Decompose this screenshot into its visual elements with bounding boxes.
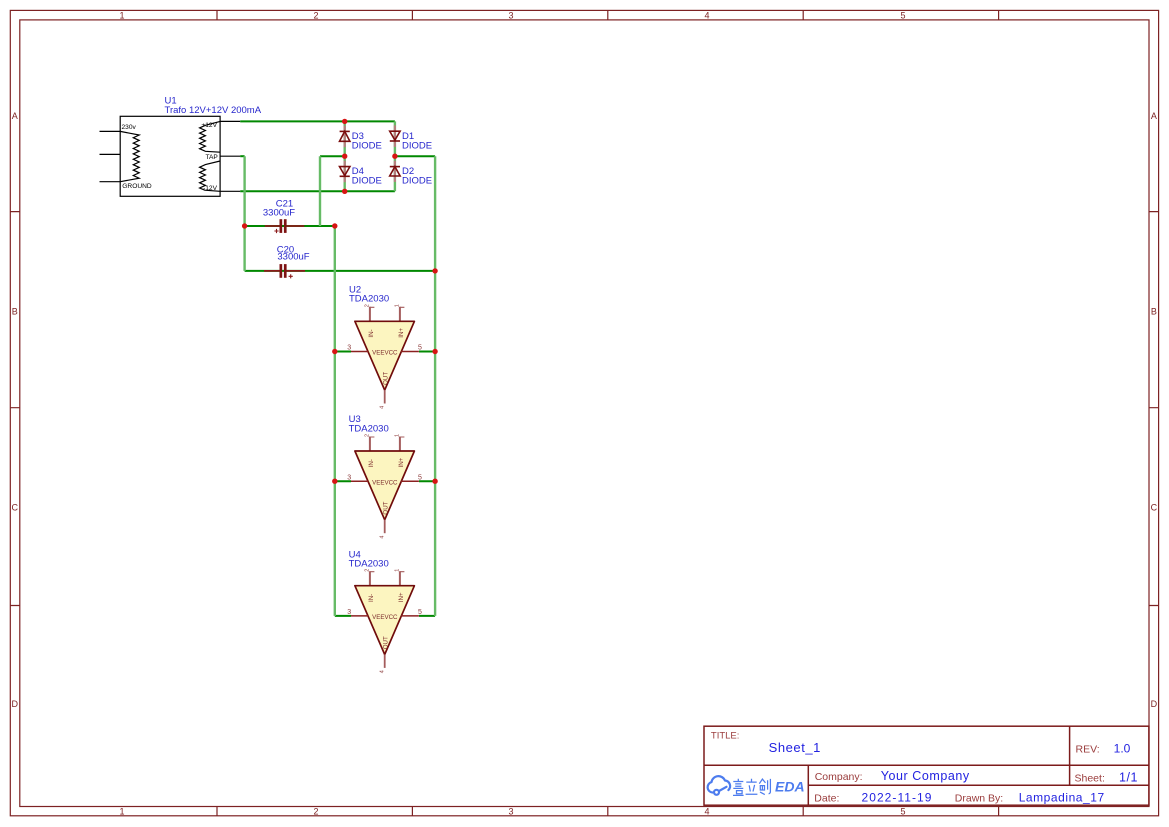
svg-text:TDA2030: TDA2030 [349, 423, 389, 434]
svg-text:4: 4 [380, 536, 386, 539]
svg-text:B: B [1151, 307, 1157, 317]
svg-text:4: 4 [704, 807, 709, 817]
svg-text:DIODE: DIODE [352, 141, 382, 152]
svg-text:+12V: +12V [201, 122, 217, 129]
svg-text:GROUND: GROUND [122, 183, 152, 190]
svg-text:DIODE: DIODE [402, 141, 432, 152]
svg-text:IN-: IN- [368, 459, 375, 467]
svg-text:-12V: -12V [203, 185, 218, 192]
svg-text:OUT: OUT [383, 636, 390, 649]
svg-text:OUT: OUT [383, 372, 390, 385]
svg-text:EDA: EDA [775, 779, 805, 795]
svg-text:5: 5 [418, 609, 422, 616]
svg-text:Lampadina_17: Lampadina_17 [1019, 791, 1105, 805]
svg-text:TAP: TAP [205, 154, 218, 161]
svg-text:IN-: IN- [368, 329, 375, 337]
svg-text:Sheet_1: Sheet_1 [769, 740, 821, 755]
svg-text:C: C [12, 502, 19, 512]
svg-text:Date:: Date: [814, 793, 839, 805]
svg-text:3: 3 [508, 807, 513, 817]
svg-text:Sheet:: Sheet: [1075, 772, 1105, 784]
svg-text:5: 5 [418, 474, 422, 481]
svg-text:A: A [12, 111, 18, 121]
svg-text:VEEVCC: VEEVCC [372, 479, 398, 486]
svg-text:4: 4 [704, 10, 709, 20]
svg-text:5: 5 [900, 807, 905, 817]
svg-text:TDA2030: TDA2030 [349, 293, 389, 304]
svg-text:1: 1 [119, 10, 124, 20]
svg-text:3300uF: 3300uF [277, 252, 309, 263]
svg-text:3: 3 [347, 474, 351, 481]
svg-text:IN+: IN+ [398, 328, 405, 338]
svg-text:1: 1 [395, 304, 401, 307]
svg-text:Drawn By:: Drawn By: [955, 793, 1003, 805]
svg-text:C: C [1151, 502, 1158, 512]
svg-text:B: B [12, 307, 18, 317]
svg-text:IN-: IN- [368, 594, 375, 602]
svg-text:TDA2030: TDA2030 [349, 559, 389, 570]
svg-text:A: A [1151, 111, 1157, 121]
svg-text:3: 3 [508, 10, 513, 20]
svg-text:IN+: IN+ [398, 592, 405, 602]
svg-text:Trafo 12V+12V 200mA: Trafo 12V+12V 200mA [165, 105, 262, 116]
svg-text:REV:: REV: [1076, 743, 1100, 755]
svg-text:VEEVCC: VEEVCC [372, 614, 398, 621]
svg-text:5: 5 [418, 345, 422, 352]
svg-text:2: 2 [313, 807, 318, 817]
svg-text:3300uF: 3300uF [263, 208, 295, 219]
svg-text:D: D [12, 699, 19, 709]
svg-text:3: 3 [347, 609, 351, 616]
svg-text:4: 4 [380, 406, 386, 409]
svg-text:DIODE: DIODE [402, 175, 432, 186]
svg-text:D: D [1151, 699, 1158, 709]
svg-text:1/1: 1/1 [1119, 770, 1138, 784]
svg-text:DIODE: DIODE [352, 175, 382, 186]
svg-text:230v: 230v [122, 124, 137, 131]
svg-text:1.0: 1.0 [1114, 742, 1131, 756]
svg-text:2022-11-19: 2022-11-19 [862, 791, 933, 805]
svg-text:1: 1 [119, 807, 124, 817]
svg-text:Company:: Company: [815, 771, 863, 783]
svg-text:2: 2 [313, 10, 318, 20]
svg-text:5: 5 [900, 10, 905, 20]
svg-text:OUT: OUT [383, 501, 390, 514]
svg-text:3: 3 [347, 345, 351, 352]
svg-text:TITLE:: TITLE: [711, 731, 740, 742]
svg-text:2: 2 [365, 434, 371, 437]
svg-text:VEEVCC: VEEVCC [372, 350, 398, 357]
svg-text:IN+: IN+ [398, 457, 405, 467]
svg-text:Your Company: Your Company [881, 769, 970, 783]
svg-text:4: 4 [380, 670, 386, 673]
svg-text:2: 2 [365, 304, 371, 307]
svg-text:1: 1 [395, 569, 401, 572]
svg-text:1: 1 [395, 434, 401, 437]
